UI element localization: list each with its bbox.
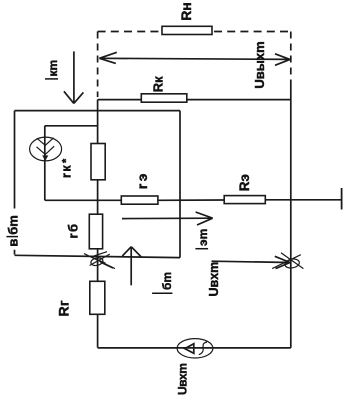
svg-text:Rг: Rг	[56, 300, 72, 317]
svg-text:эm: эm	[196, 229, 210, 246]
resistor Rг	[90, 281, 105, 314]
wire inner box bottom	[15, 255, 181, 257]
wire dashed top (load loop)	[98, 31, 159, 33]
wire dashed right vertical	[290, 32, 292, 85]
ground terminal bar	[341, 188, 343, 210]
label Iбm	[152, 292, 172, 294]
label Iэm	[195, 248, 208, 250]
resistor rб	[89, 214, 102, 249]
wire inner box left vertical	[14, 111, 16, 255]
resistor rк*	[91, 144, 105, 180]
svg-text:в: в	[5, 239, 20, 247]
svg-text:Rэ: Rэ	[237, 174, 252, 191]
wire main vertical (collector-base-Rг branch)	[97, 100, 99, 348]
svg-text:*: *	[61, 158, 73, 163]
arrow Uвыхm (output voltage, double-headed)	[99, 52, 290, 65]
resistor rэ	[121, 196, 158, 204]
svg-text:Uвхm: Uвхm	[207, 262, 221, 297]
node base input terminal (X mark left)	[84, 252, 115, 269]
arrow Iбm (base current)	[122, 247, 141, 286]
source Uвхm (AC generator circle)	[177, 339, 213, 358]
wire right vertical	[290, 84, 292, 348]
wire emitter line	[45, 199, 342, 202]
arrow Iкm (collector current)	[64, 51, 84, 103]
wire inner box right vertical	[179, 111, 181, 258]
wire collector rail	[98, 99, 291, 101]
wire current source top	[45, 125, 98, 127]
current source βIб (circle with double arrow)	[30, 137, 62, 161]
resistor Rэ	[224, 196, 265, 204]
svg-text:rк: rк	[60, 164, 74, 178]
resistor Rн	[162, 26, 212, 34]
svg-text:Uвыхm: Uвыхm	[252, 41, 267, 88]
svg-text:Rк: Rк	[151, 76, 166, 92]
svg-text:кm: кm	[46, 60, 60, 77]
wire bottom	[98, 347, 291, 349]
svg-text:бm: бm	[5, 215, 20, 235]
svg-text:Rн: Rн	[178, 2, 194, 21]
label Iкm	[45, 78, 58, 80]
wire inner box top	[15, 110, 181, 112]
wire dashed left vertical	[97, 32, 99, 98]
svg-text:Uвхm: Uвхm	[176, 364, 190, 395]
resistor Rк	[141, 94, 187, 102]
arrow Uвхm (input voltage)	[212, 256, 291, 268]
node emitter input terminal (X mark right)	[272, 253, 303, 269]
svg-text:бm: бm	[160, 272, 174, 290]
svg-text:rб: rб	[66, 222, 81, 238]
arrow Iэm (emitter current)	[122, 212, 213, 225]
svg-text:rэ: rэ	[134, 171, 150, 189]
wire current source vertical	[44, 126, 46, 201]
